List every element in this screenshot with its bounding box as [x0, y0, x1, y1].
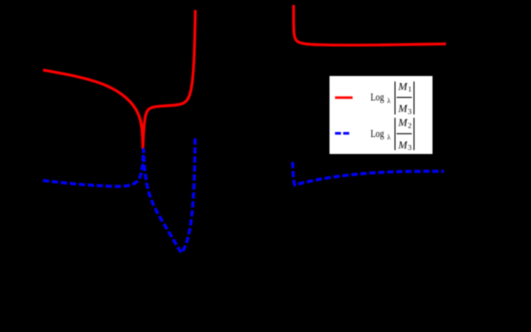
- legend row2 fraction |M2/M3|: [394, 118, 396, 150]
- svg-text:Log: Log: [371, 129, 385, 140]
- svg-text:1: 1: [408, 85, 412, 94]
- legend box: [330, 76, 433, 154]
- svg-text:Log: Log: [371, 93, 385, 104]
- svg-text:3: 3: [408, 143, 412, 152]
- svg-text:M: M: [397, 117, 408, 129]
- svg-text:M: M: [397, 103, 408, 115]
- blue curve left branch: [43, 137, 195, 253]
- blue curve right branch: [293, 162, 444, 185]
- legend red line sample: [335, 96, 353, 99]
- svg-text:λ: λ: [387, 97, 391, 105]
- svg-text:M: M: [397, 139, 408, 151]
- svg-text:λ: λ: [387, 134, 391, 142]
- red curve right branch: [294, 5, 446, 45]
- svg-text:2: 2: [408, 121, 412, 130]
- legend row1 fraction |M1/M3|: [394, 82, 396, 115]
- red curve left branch: [43, 10, 195, 148]
- svg-text:3: 3: [408, 107, 412, 116]
- legend blue dashed sample: [335, 132, 350, 135]
- svg-text:M: M: [397, 81, 408, 93]
